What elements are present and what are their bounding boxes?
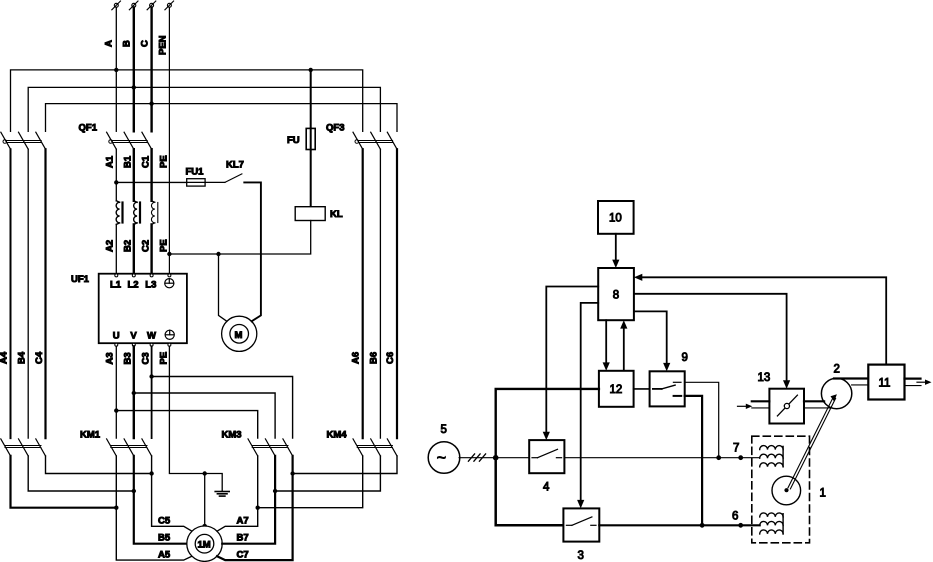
svg-text:A: A <box>104 40 115 47</box>
arrow into 8 right <box>634 274 642 281</box>
wire KM2 pole1 to A5 <box>11 456 117 508</box>
wire KM2 pole3 to C5 <box>46 456 152 474</box>
label PE row3 <box>159 352 170 365</box>
reactor coil phase A <box>116 201 122 225</box>
arrow into 8 top <box>612 260 619 268</box>
label tilde in 5 <box>437 450 446 467</box>
label U <box>113 331 120 342</box>
svg-text:A3: A3 <box>105 352 116 364</box>
block 4 <box>529 440 564 473</box>
wire B3 branch to KM3 pole2 <box>134 393 275 438</box>
svg-text:QF3: QF3 <box>326 123 344 134</box>
wire B3 <box>133 346 135 438</box>
label C6 <box>385 352 396 364</box>
wire 4 to terminal 7 <box>564 457 759 459</box>
wire A2 <box>115 224 117 273</box>
label L1 <box>110 280 122 291</box>
wire motor 1M top lead <box>204 474 206 527</box>
label 13 <box>758 372 771 384</box>
wire A4 <box>10 149 12 438</box>
svg-text:A6: A6 <box>351 352 362 364</box>
svg-text:6: 6 <box>732 511 738 523</box>
label 7 <box>733 443 739 455</box>
node A1 FU1 tap <box>114 180 118 184</box>
contactor KM4 pole 2 <box>371 439 381 456</box>
terminal PEN <box>165 1 174 10</box>
svg-text:B1: B1 <box>123 155 134 168</box>
contactor KM2 pole 3 <box>36 439 46 456</box>
breaker QF2 pole 1 <box>1 132 11 149</box>
label C3 <box>141 352 152 364</box>
arrow into 9 top <box>663 363 670 371</box>
wire fan M left lead <box>219 254 227 321</box>
bus B <box>28 87 380 131</box>
label 6 <box>732 511 738 523</box>
label 1M <box>198 539 211 550</box>
wire phase C drop <box>150 7 152 131</box>
svg-text:B6: B6 <box>369 352 380 364</box>
svg-text:A2: A2 <box>105 240 116 252</box>
breaker QF1 pole 2 <box>124 132 134 149</box>
label L2 <box>128 280 139 291</box>
svg-text:B3: B3 <box>123 352 134 364</box>
bus C <box>46 104 398 132</box>
wire 11 to 8 <box>640 277 886 364</box>
wire A6 <box>362 149 364 438</box>
svg-text:C1: C1 <box>141 155 152 168</box>
label KM3 <box>222 430 242 441</box>
wires input 13 <box>752 401 770 408</box>
svg-text:~: ~ <box>437 450 446 467</box>
node A5 junction <box>114 506 118 510</box>
wire B4 <box>27 149 29 438</box>
label A1 <box>105 155 116 168</box>
wire B6 <box>379 149 381 438</box>
label A4 <box>0 351 10 364</box>
node PE motor tap <box>203 471 207 475</box>
circle 2 <box>821 378 851 408</box>
wire KM3 pole1 to A7 <box>217 456 258 531</box>
wire phase B drop <box>133 7 135 131</box>
node bus A fuse tap <box>309 68 313 72</box>
wire 8 to 12 down <box>605 320 607 365</box>
svg-text:L1: L1 <box>110 280 122 291</box>
svg-text:PE: PE <box>159 155 170 168</box>
breaker QF2 pole 3 <box>36 132 46 149</box>
contactor KM4 pole 3 <box>387 439 397 456</box>
wire rail to 12 <box>496 389 599 458</box>
wire 9 thick output <box>685 396 702 525</box>
wire FU1 to KL7 <box>205 181 225 183</box>
node B5 junction <box>132 489 136 493</box>
wire PEN drop <box>168 7 170 273</box>
svg-text:C4: C4 <box>34 351 45 364</box>
contactor KM4 linkage bar <box>357 446 392 448</box>
svg-text:KL7: KL7 <box>226 160 244 171</box>
switch KL7 blade <box>225 174 242 183</box>
arrow input 13 <box>738 405 747 407</box>
node A7 junction <box>256 506 260 510</box>
breaker QF2 pole 2 <box>19 132 29 149</box>
svg-text:9: 9 <box>682 352 688 364</box>
breaker QF3 linkage bar <box>355 140 393 144</box>
hatching on supply wire <box>468 454 485 461</box>
wire KM3 pole2 to B7 <box>222 456 275 544</box>
pin V <box>132 343 135 346</box>
svg-text:11: 11 <box>879 377 891 389</box>
svg-text:C: C <box>140 40 151 47</box>
wire KM4 pole1 link <box>258 456 363 508</box>
node bus B phase tap <box>132 85 136 89</box>
wire KM4 pole3 link <box>293 456 397 474</box>
winding 6 <box>760 513 783 534</box>
label B4 <box>17 351 28 364</box>
svg-text:M: M <box>235 330 243 341</box>
wire 5 to 4 <box>459 457 529 459</box>
fuse FU1 <box>187 179 205 186</box>
svg-text:B7: B7 <box>237 533 249 544</box>
label A2 <box>105 240 116 252</box>
reactor coil phase B <box>134 201 140 225</box>
wire 3 to terminal 6 <box>599 524 759 526</box>
svg-text:U: U <box>113 331 120 342</box>
svg-text:C6: C6 <box>385 352 396 364</box>
svg-text:B: B <box>122 40 133 47</box>
contactor KM3 pole 3 <box>283 439 293 456</box>
wire 12 to 9 link <box>634 388 650 390</box>
earth symbol bottom <box>165 330 174 339</box>
block 9 <box>650 371 685 406</box>
contactor KM2 linkage bar <box>5 446 41 448</box>
shaft pivot dot <box>784 488 788 492</box>
wire 12 to 8 up <box>623 326 625 371</box>
svg-text:FU1: FU1 <box>186 167 205 178</box>
wire A3 <box>115 346 117 438</box>
wire B2 <box>133 224 135 273</box>
arrow into 4 top <box>543 432 550 440</box>
wire KM3 pole3 to C7 <box>217 456 293 560</box>
wire 8 to 3 <box>581 303 599 503</box>
switch inside 3 <box>566 517 596 525</box>
block 8 <box>598 268 634 320</box>
svg-text:10: 10 <box>609 213 622 225</box>
svg-text:V: V <box>130 331 137 342</box>
arrow into 13 top <box>783 380 790 388</box>
switch inside 4 <box>532 449 562 457</box>
pin U <box>115 343 118 346</box>
svg-text:13: 13 <box>758 372 771 384</box>
terminal B <box>129 1 138 10</box>
node B3 branch <box>132 391 136 395</box>
svg-text:C7: C7 <box>237 550 249 561</box>
contactor KM1 linkage bar <box>111 446 147 448</box>
svg-text:3: 3 <box>578 550 584 562</box>
label KM1 <box>80 430 101 441</box>
node PEN at PE bus <box>167 252 171 256</box>
label B6 <box>369 352 380 364</box>
node C3 branch <box>149 374 153 378</box>
svg-text:KL: KL <box>330 209 343 220</box>
label 10 <box>609 213 622 225</box>
svg-text:A7: A7 <box>237 515 249 526</box>
contactor KM1 pole 3 <box>142 439 152 456</box>
source 5 circle <box>428 442 460 474</box>
wire phase A drop <box>115 7 117 131</box>
pin L3 <box>150 274 153 277</box>
pin W <box>150 343 153 346</box>
wire A3 branch to KM3 pole1 <box>116 411 257 439</box>
label B3 <box>123 352 134 364</box>
label 5 <box>441 424 447 436</box>
wire C1 <box>150 149 152 201</box>
label KL7 <box>226 160 244 171</box>
node terminal 7 <box>738 455 743 460</box>
wire FU1 feeder <box>116 181 186 183</box>
label L3 <box>145 280 156 291</box>
contactor KM1 pole 2 <box>124 439 134 456</box>
wire KM4 pole2 link <box>275 456 380 491</box>
breaker QF1 pole 3 <box>142 132 152 149</box>
label PEN <box>158 35 169 55</box>
soft starter UF1 box <box>99 274 187 344</box>
svg-text:PE: PE <box>159 352 170 365</box>
label PE row2 <box>159 239 170 252</box>
svg-text:A1: A1 <box>105 155 116 168</box>
label A6 <box>351 352 362 364</box>
contactor KM3 pole 2 <box>265 439 275 456</box>
svg-text:4: 4 <box>543 482 550 494</box>
label PE row1 <box>159 155 170 168</box>
svg-text:12: 12 <box>610 384 623 396</box>
label B5 <box>158 533 171 544</box>
wires 13 to 2 <box>804 401 832 408</box>
arrow output 11 <box>917 381 925 383</box>
block 10 <box>598 201 634 234</box>
label QF1 <box>79 123 98 134</box>
motor 1M <box>187 526 222 561</box>
svg-text:B5: B5 <box>158 533 171 544</box>
label phase B <box>122 40 133 47</box>
pin PE top <box>168 274 171 277</box>
pin PE bottom <box>168 343 171 346</box>
wire 8 to 9 <box>634 311 667 365</box>
wire 9 thin output <box>685 382 719 457</box>
wire KL bottom to PE bus <box>169 221 310 255</box>
node 9 output on rail 6 <box>700 523 705 528</box>
wire C6 <box>396 149 398 438</box>
svg-text:A4: A4 <box>0 351 10 364</box>
svg-text:B4: B4 <box>17 351 28 364</box>
svg-text:A5: A5 <box>158 550 171 561</box>
block 11 <box>868 365 904 400</box>
node C7 junction <box>290 471 294 475</box>
label FU <box>287 135 300 146</box>
label QF3 <box>326 123 344 134</box>
earth symbol top <box>165 279 174 288</box>
breaker QF3 pole 2 <box>371 132 381 149</box>
label B7 <box>237 533 249 544</box>
svg-text:7: 7 <box>733 443 739 455</box>
svg-text:C2: C2 <box>141 240 152 252</box>
pin L1 <box>115 274 118 277</box>
svg-text:C5: C5 <box>158 515 171 526</box>
node B7 junction <box>273 489 277 493</box>
terminal A <box>112 1 121 10</box>
svg-text:PEN: PEN <box>158 35 169 55</box>
label 11 <box>879 377 891 389</box>
svg-text:8: 8 <box>613 289 619 301</box>
label KL <box>330 209 343 220</box>
svg-text:QF1: QF1 <box>79 123 98 134</box>
svg-text:KM3: KM3 <box>222 430 242 441</box>
svg-text:PE: PE <box>159 239 170 252</box>
node C5 junction <box>149 471 153 475</box>
contactor KM4 pole 1 <box>353 439 363 456</box>
label C2 <box>141 240 152 252</box>
svg-text:L2: L2 <box>128 280 139 291</box>
node motor 1M top <box>202 524 207 529</box>
contactor KM2 pole 1 <box>1 439 11 456</box>
block 13 <box>769 389 804 424</box>
label FU1 <box>186 167 205 178</box>
label A5 <box>158 550 171 561</box>
label C1 <box>141 155 152 168</box>
label 12 <box>610 384 623 396</box>
block 12 <box>599 371 634 407</box>
label UF1 <box>71 274 90 285</box>
label M fan <box>235 330 243 341</box>
breaker QF3 pole 3 <box>387 132 397 149</box>
label 2 <box>834 364 840 376</box>
wire 8 to 4 <box>546 287 598 435</box>
node A3 branch <box>114 408 118 412</box>
label B1 <box>123 155 134 168</box>
wire A1 <box>115 149 117 201</box>
svg-text:FU: FU <box>287 135 300 146</box>
shaft 2 to 1 <box>788 397 836 489</box>
wire B1 <box>133 149 135 201</box>
wires output 11 <box>905 379 922 386</box>
armature circle 1 <box>772 476 801 505</box>
label KM4 <box>327 430 348 441</box>
switch inside 9 <box>653 382 681 396</box>
label C7 <box>237 550 249 561</box>
label C4 <box>34 351 45 364</box>
arrow into 8 bottom <box>620 320 627 328</box>
wire C5 <box>152 456 192 531</box>
label phase C <box>140 40 151 47</box>
bus A <box>11 70 363 131</box>
wire 8 to 13 <box>634 294 787 383</box>
wire PE down <box>169 346 222 491</box>
label A3 <box>105 352 116 364</box>
svg-text:B2: B2 <box>123 240 134 252</box>
contactor KM1 pole 1 <box>107 439 117 456</box>
shaft arrowhead <box>831 394 837 401</box>
label C5 <box>158 515 171 526</box>
node 9 output on rail 7 <box>716 455 721 460</box>
svg-text:L3: L3 <box>145 280 156 291</box>
wire C3 branch to KM3 pole3 <box>152 377 293 439</box>
wire KM2 pole2 to B5 <box>28 456 134 491</box>
relay coil KL <box>295 207 325 221</box>
reactor coil phase C <box>151 201 157 225</box>
svg-text:1: 1 <box>820 488 826 500</box>
node bus A phase tap <box>114 68 118 72</box>
node supply split <box>493 455 499 461</box>
svg-text:KM4: KM4 <box>327 430 348 441</box>
svg-text:1M: 1M <box>198 539 211 550</box>
winding 7 <box>760 446 783 467</box>
svg-text:KM1: KM1 <box>80 430 101 441</box>
terminal C <box>147 1 156 10</box>
label B2 <box>123 240 134 252</box>
label A7 <box>237 515 249 526</box>
contactor KM3 linkage bar <box>252 446 288 448</box>
motor M fan <box>222 316 257 351</box>
breaker QF3 pole 1 <box>353 132 363 149</box>
node bus C phase tap <box>149 101 153 105</box>
wire KL7 down to fan <box>244 182 261 321</box>
arrow into 3 top <box>577 500 584 509</box>
svg-text:C3: C3 <box>141 352 152 364</box>
wire A5 <box>116 456 192 560</box>
pin L2 <box>132 274 135 277</box>
breaker QF1 pole 1 <box>107 132 117 149</box>
label phase A <box>104 40 115 47</box>
contactor KM3 pole 1 <box>248 439 258 456</box>
block 3 <box>563 508 599 541</box>
svg-text:W: W <box>147 331 156 342</box>
label 9 <box>682 352 688 364</box>
wire rail to 3 <box>496 458 564 526</box>
fuse FU <box>306 70 315 207</box>
label V <box>130 331 137 342</box>
node fan M left tap <box>216 252 220 256</box>
svg-text:5: 5 <box>441 424 447 436</box>
breaker QF2 linkage bar <box>3 140 41 144</box>
contactor KM2 pole 2 <box>19 439 29 456</box>
wire 10 to 8 <box>615 234 617 262</box>
svg-text:2: 2 <box>834 364 840 376</box>
breaker QF1 linkage bar <box>109 140 147 144</box>
wire C3 <box>151 346 153 438</box>
wire C4 <box>44 149 46 438</box>
arrow into 12 top <box>603 362 610 370</box>
wire B5 <box>134 456 187 544</box>
label 8 <box>613 289 619 301</box>
dashed box 1 <box>752 436 810 543</box>
label 1 <box>820 488 826 500</box>
svg-text:UF1: UF1 <box>71 274 90 285</box>
wires 2 to 11 <box>834 379 868 385</box>
label 3 <box>578 550 584 562</box>
node terminal 6 <box>738 523 743 528</box>
wire C2 <box>150 224 152 273</box>
label W <box>147 331 156 342</box>
label 4 <box>543 482 550 494</box>
regulator symbol in 13 <box>777 395 797 416</box>
ground <box>215 492 229 497</box>
